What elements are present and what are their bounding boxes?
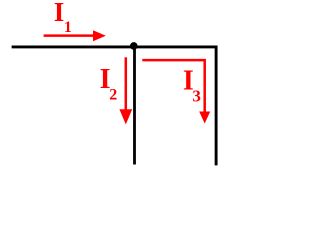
- svg-text:3: 3: [192, 86, 201, 105]
- wire: top horizontal conductor: [12, 45, 218, 48]
- current arrow I1 (incoming current, points right along top wire): [44, 30, 106, 41]
- node: junction dot at branch point: [130, 42, 138, 50]
- label I1: [54, 0, 72, 36]
- label I2: [100, 64, 118, 103]
- current arrow I2 (points down middle branch): [119, 57, 132, 124]
- svg-text:I: I: [54, 0, 65, 27]
- wire: right vertical branch: [215, 46, 218, 166]
- wire: middle vertical branch down from node: [133, 46, 136, 165]
- svg-text:1: 1: [64, 19, 72, 36]
- label I3: [183, 66, 201, 106]
- current arrow I3 (bracket from node, points down right branch): [142, 60, 210, 123]
- svg-text:2: 2: [109, 87, 117, 104]
